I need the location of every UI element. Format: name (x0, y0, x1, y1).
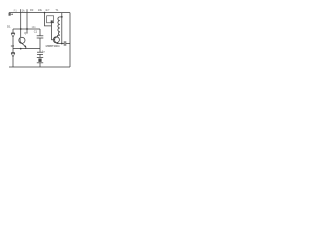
transistor Q1 (19, 37, 26, 48)
wire x51.5 down to base (52, 26, 55, 40)
svg-text:D1: D1 (7, 25, 11, 29)
wire horizontal y48.6 (13, 48, 40, 50)
diode D1 (11, 29, 15, 49)
node junction dot winding top (61, 16, 63, 18)
svg-text:C1: C1 (34, 30, 38, 34)
wire vertical x21 from rail to node (20, 9, 22, 37)
inductor L1 winding (58, 17, 62, 35)
wire mid branch x44.5 (45, 13, 52, 26)
capacitor C2 (37, 49, 43, 58)
wire bottom rail (9, 66, 70, 68)
capacitor C3 (64, 41, 70, 46)
node junction dot B (26, 28, 28, 30)
capacitor C1 branch x40 (37, 29, 44, 49)
node B+ terminal stub (8, 13, 10, 16)
svg-text:D2: D2 (11, 44, 15, 48)
wire x61.8 (61, 13, 63, 44)
wire horizontal y29 (13, 28, 40, 30)
node junction dot C (20, 48, 22, 50)
wire y43.5 (58, 43, 64, 45)
svg-text:1n: 1n (42, 49, 45, 53)
svg-text:Q1: Q1 (24, 31, 28, 35)
wire vertical x27 from rail (26, 9, 28, 33)
svg-text:R3: R3 (30, 8, 34, 12)
svg-text:B+: B+ (9, 13, 13, 17)
crystal Y1 (37, 57, 43, 67)
svg-text:MMBT3904: MMBT3904 (46, 44, 60, 48)
svg-text:T1: T1 (55, 8, 59, 12)
node junction dot A (20, 28, 22, 30)
svg-text:10n: 10n (32, 26, 37, 29)
node junction dot rail x44.5 (44, 12, 46, 14)
transistor Q2 (53, 35, 59, 44)
svg-text:10k: 10k (38, 8, 43, 12)
svg-text:R1: R1 (14, 9, 18, 12)
box U1 (47, 16, 54, 23)
wire box stub (51, 23, 53, 26)
svg-text:4n7: 4n7 (45, 9, 50, 12)
svg-text:1k: 1k (22, 9, 25, 13)
node junction dot D (61, 43, 63, 45)
wire right edge (69, 13, 71, 67)
wire top rail (9, 12, 70, 14)
diode D2 (11, 49, 15, 67)
